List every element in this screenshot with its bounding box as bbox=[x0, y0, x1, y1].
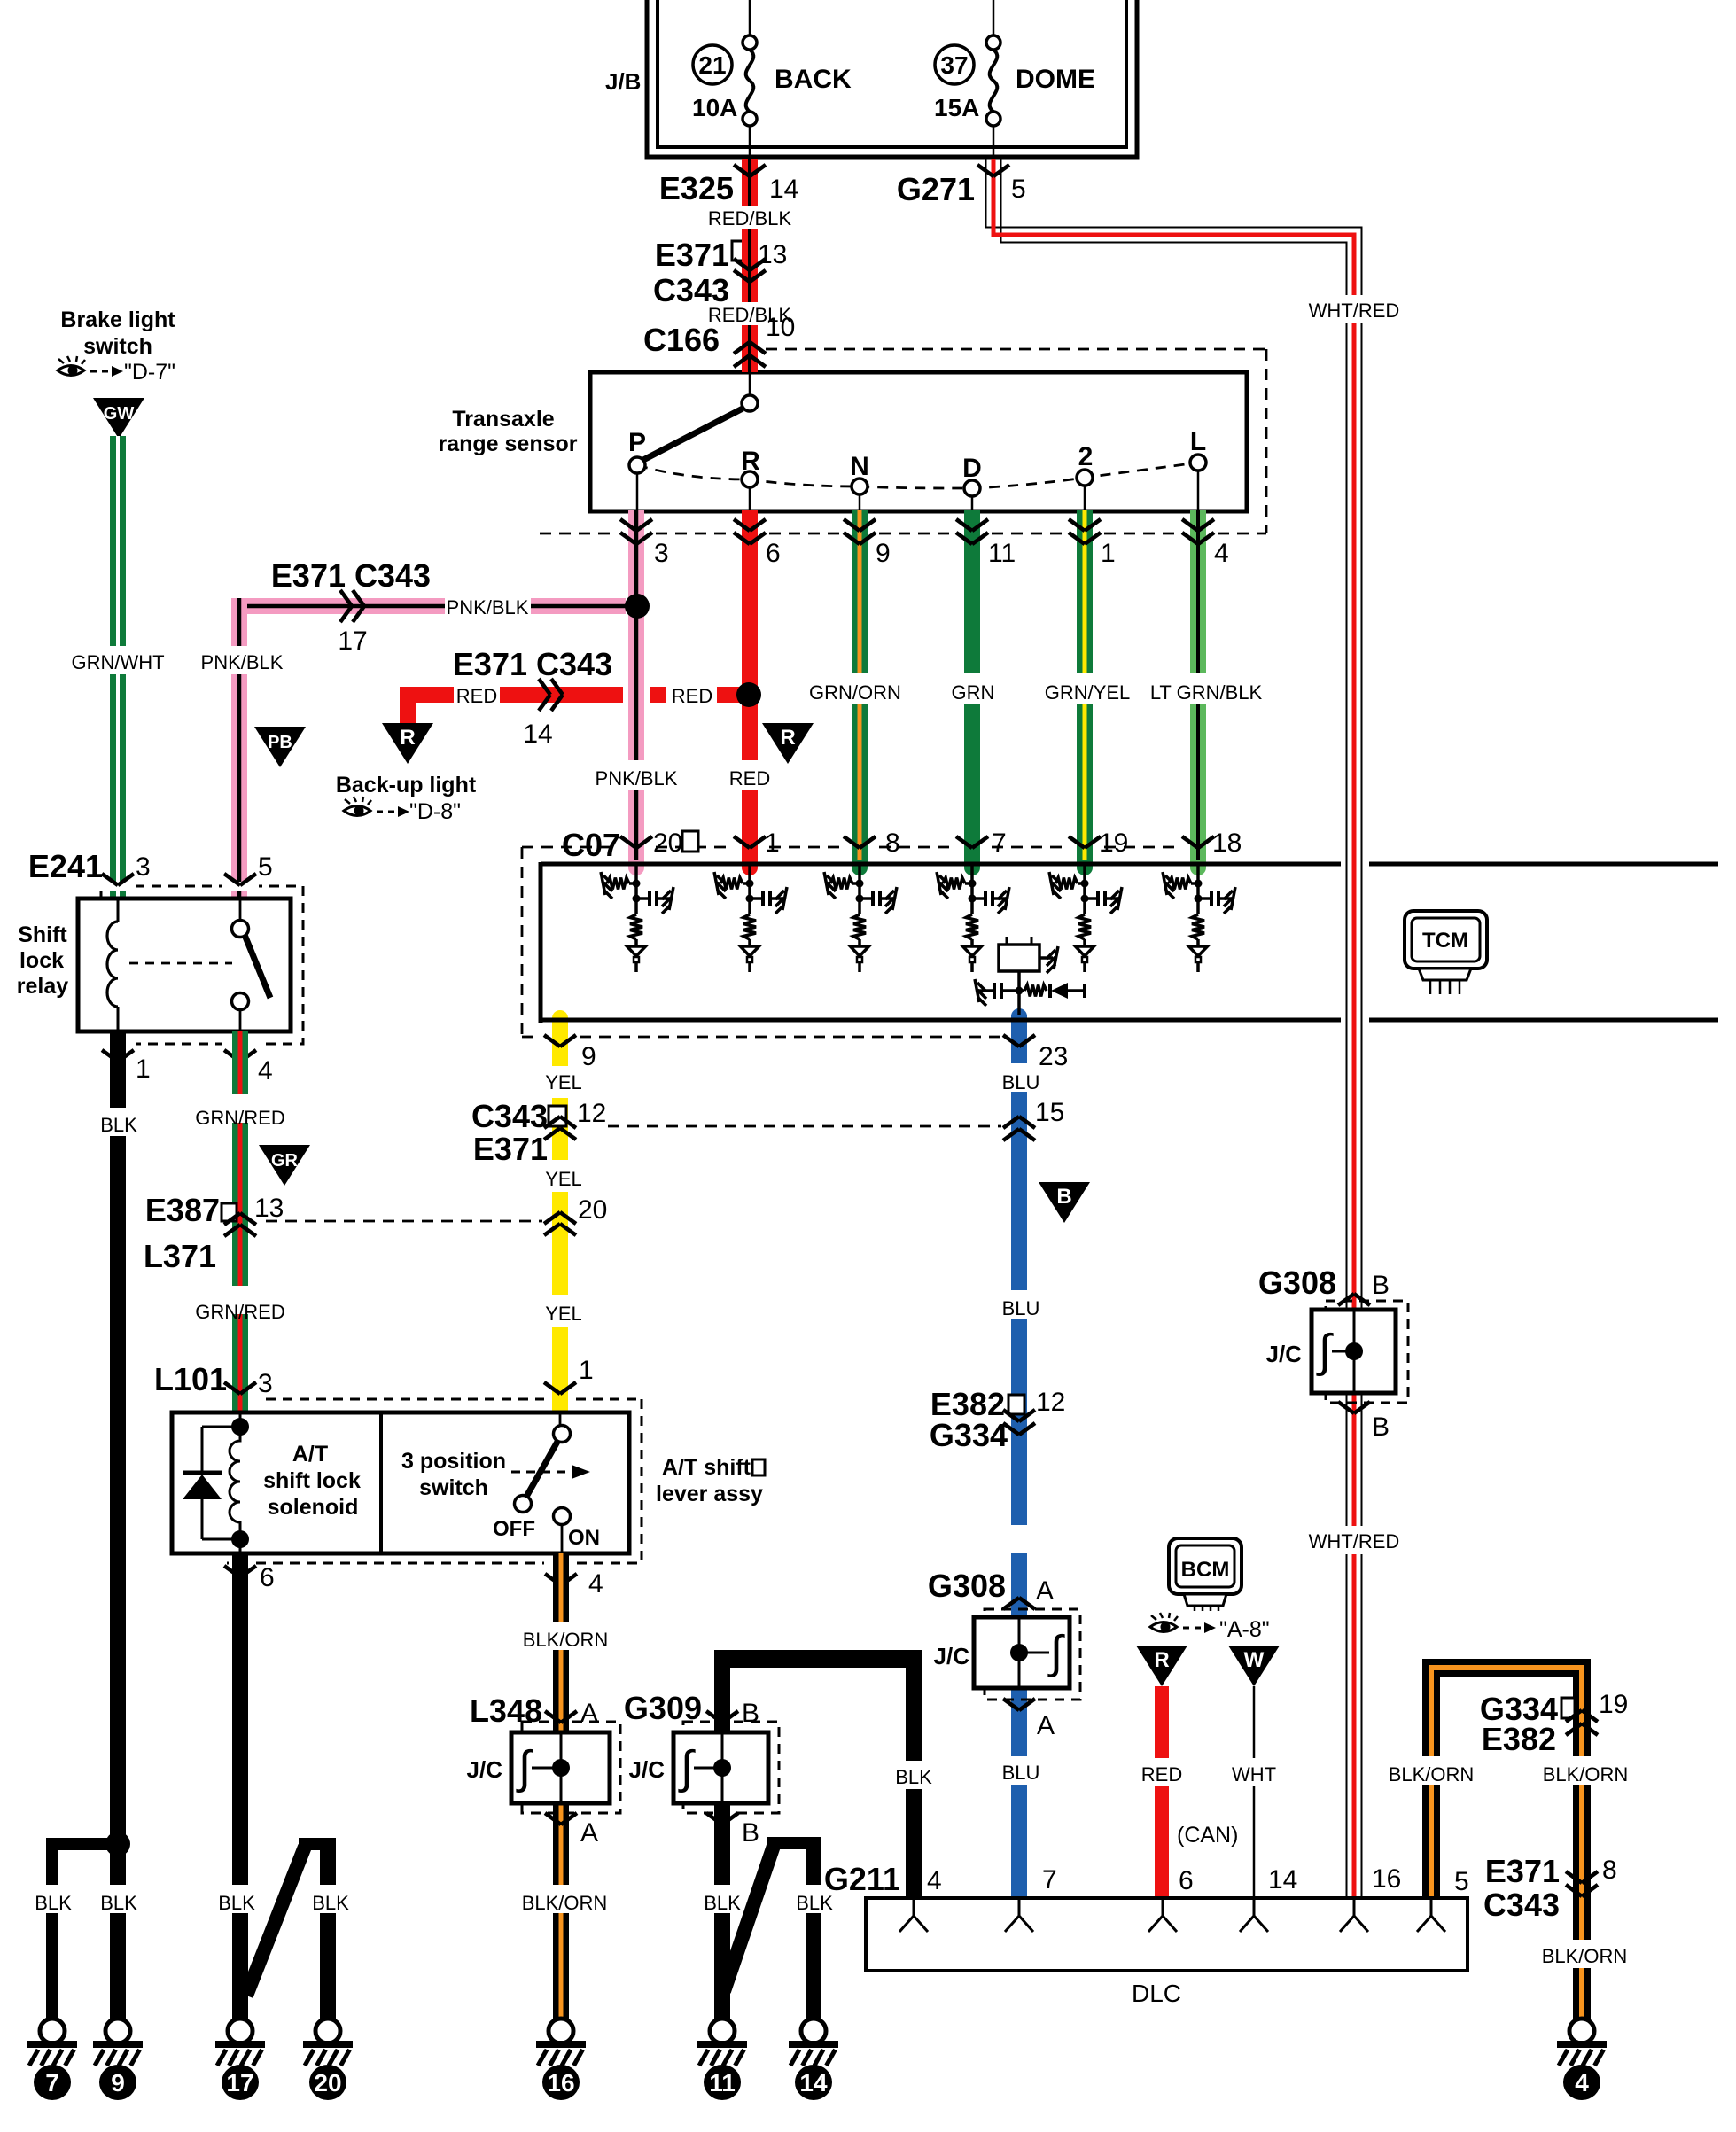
L348 bottom chevron bbox=[545, 1813, 561, 1825]
wire PNK/BLK sensor P bbox=[628, 510, 644, 760]
svg-text:OFF: OFF bbox=[493, 1517, 535, 1541]
svg-text:A: A bbox=[1037, 1711, 1055, 1740]
wire WHT bbox=[1253, 1686, 1256, 1758]
wire WHT/RED from G271 (elbow) bbox=[986, 159, 1362, 295]
BCM icon bbox=[1169, 1538, 1242, 1594]
svg-text:WHT/RED: WHT/RED bbox=[1309, 300, 1400, 322]
svg-text:14: 14 bbox=[799, 2069, 828, 2097]
ground 20 bbox=[315, 2019, 340, 2043]
C07 chevron D bbox=[956, 836, 972, 848]
connector G308A bottom chevron bbox=[1003, 1699, 1019, 1710]
eye ref D-7 bbox=[58, 366, 84, 376]
svg-text:RED: RED bbox=[456, 685, 497, 707]
switch wire in bbox=[559, 1412, 562, 1426]
svg-text:17: 17 bbox=[226, 2069, 253, 2097]
C07 chevron pin23 bbox=[1003, 1035, 1019, 1047]
A/T box divider bbox=[379, 1412, 383, 1553]
svg-text:range sensor: range sensor bbox=[438, 432, 577, 456]
ground 4 bbox=[1569, 2019, 1594, 2043]
svg-text:B: B bbox=[742, 1699, 759, 1728]
svg-text:2: 2 bbox=[1078, 442, 1094, 471]
svg-text:relay: relay bbox=[17, 974, 68, 999]
svg-text:C07: C07 bbox=[562, 827, 620, 863]
svg-text:Shift: Shift bbox=[18, 922, 67, 947]
wire LT GRN/BLK sensor L bbox=[1190, 510, 1206, 673]
triangle R (range sensor R wire) bbox=[762, 723, 814, 764]
TCM input circuit 5 bbox=[1083, 866, 1086, 900]
svg-text:BLK/ORN: BLK/ORN bbox=[1389, 1763, 1475, 1786]
svg-text:4: 4 bbox=[1575, 2069, 1589, 2097]
switch arm bbox=[526, 1442, 557, 1497]
relay contact top bbox=[239, 899, 242, 921]
svg-text:DLC: DLC bbox=[1132, 1980, 1181, 2007]
svg-text:"D-7": "D-7" bbox=[124, 360, 175, 385]
wire GRN/ORN sensor N bbox=[852, 510, 868, 673]
svg-text:GRN/RED: GRN/RED bbox=[195, 1107, 284, 1129]
connector G308A top chevron bbox=[1003, 1598, 1019, 1609]
relay mechanical link bbox=[129, 962, 232, 965]
svg-text:21: 21 bbox=[698, 51, 726, 79]
connector square E382-12 bbox=[1008, 1395, 1024, 1414]
connector E371/C343 chevrons bbox=[734, 259, 750, 270]
A/T lever dashed box bbox=[266, 1398, 544, 1401]
svg-text:BLU: BLU bbox=[1002, 1071, 1040, 1093]
triangle W (CAN) bbox=[1228, 1646, 1280, 1686]
svg-text:W: W bbox=[1244, 1648, 1265, 1672]
svg-text:GRN: GRN bbox=[952, 681, 995, 704]
svg-text:4: 4 bbox=[258, 1056, 273, 1085]
svg-text:TCM: TCM bbox=[1422, 929, 1468, 953]
svg-text:8: 8 bbox=[885, 829, 900, 858]
DLC pin 16 fork bbox=[1353, 1898, 1356, 1916]
svg-text:17: 17 bbox=[338, 626, 367, 656]
fuse number circle 21 bbox=[693, 45, 732, 84]
fuse number circle 37 bbox=[935, 45, 974, 84]
transaxle range sensor box bbox=[590, 372, 1247, 511]
svg-text:Transaxle: Transaxle bbox=[452, 407, 554, 432]
triangle GR bbox=[259, 1145, 310, 1186]
wire RED sensor R bbox=[742, 510, 758, 760]
svg-text:3 position: 3 position bbox=[401, 1449, 506, 1474]
dashed connector line C07 top bbox=[522, 846, 617, 849]
connector 20 chevrons bbox=[544, 1212, 560, 1224]
svg-text:3: 3 bbox=[654, 539, 669, 568]
svg-text:J/C: J/C bbox=[629, 1756, 666, 1783]
svg-text:A/T: A/T bbox=[292, 1442, 328, 1467]
svg-text:GW: GW bbox=[104, 404, 135, 424]
C07 chevron L bbox=[1182, 836, 1198, 848]
dashed connector line C166 bbox=[766, 348, 1266, 351]
sensor contact D bbox=[964, 480, 980, 496]
svg-text:6: 6 bbox=[1179, 1866, 1194, 1895]
svg-text:11: 11 bbox=[988, 539, 1016, 568]
connector chevrons 14 bbox=[539, 679, 550, 695]
svg-text:GR: GR bbox=[271, 1151, 299, 1171]
svg-text:16: 16 bbox=[1372, 1864, 1401, 1894]
svg-text:Back-up light: Back-up light bbox=[336, 773, 477, 798]
svg-text:BLK: BLK bbox=[895, 1766, 932, 1788]
ground 14 bbox=[801, 2019, 826, 2043]
svg-text:BLK: BLK bbox=[35, 1892, 72, 1914]
G308B bottom chevron bbox=[1338, 1402, 1354, 1413]
svg-text:PNK/BLK: PNK/BLK bbox=[201, 651, 284, 673]
svg-text:9: 9 bbox=[581, 1042, 596, 1071]
dashed connector line C07 bottom bbox=[522, 1036, 541, 1039]
fuse 37 DOME 15A bbox=[986, 35, 1000, 50]
G308B top chevron bbox=[1338, 1294, 1354, 1305]
svg-text:14: 14 bbox=[1268, 1865, 1297, 1895]
svg-text:12: 12 bbox=[1036, 1388, 1065, 1417]
ground 11 bbox=[710, 2019, 735, 2043]
connector chevrons pin 3 bbox=[620, 519, 636, 531]
junction dot red bbox=[736, 682, 761, 707]
dashed connector link E387-13 to 20 bbox=[266, 1220, 542, 1223]
connector chevrons pin 6 bbox=[734, 519, 750, 531]
svg-text:YEL: YEL bbox=[545, 1303, 582, 1325]
svg-text:BLK: BLK bbox=[218, 1892, 255, 1914]
L101 chevron bbox=[224, 1382, 240, 1394]
svg-text:BCM: BCM bbox=[1181, 1558, 1230, 1582]
svg-text:P: P bbox=[628, 428, 646, 457]
solenoid coil bbox=[230, 1427, 240, 1539]
svg-text:6: 6 bbox=[766, 539, 781, 568]
svg-text:BLK: BLK bbox=[312, 1892, 349, 1914]
svg-text:L101: L101 bbox=[154, 1361, 227, 1397]
TCM input circuit 4 bbox=[970, 866, 974, 900]
wire GRN/RED bbox=[232, 1031, 248, 1094]
svg-text:R: R bbox=[1154, 1648, 1169, 1672]
connector G271 chevron bbox=[977, 165, 993, 176]
connector chevrons 17 bbox=[340, 590, 352, 606]
svg-text:∫: ∫ bbox=[678, 1742, 696, 1794]
relay switch arm bbox=[245, 935, 270, 998]
wire GRN sensor D bbox=[964, 510, 980, 673]
triangle PB bbox=[254, 727, 306, 767]
svg-text:∫: ∫ bbox=[1047, 1627, 1065, 1678]
svg-text:BLK/ORN: BLK/ORN bbox=[1543, 1763, 1629, 1786]
svg-text:RED/BLK: RED/BLK bbox=[708, 207, 791, 230]
sensor dashed selector arc bbox=[637, 463, 1198, 488]
svg-text:9: 9 bbox=[876, 539, 891, 568]
junction connector G308 A bbox=[985, 1609, 1080, 1700]
svg-text:switch: switch bbox=[83, 334, 152, 359]
connector E241 chevron pin3 bbox=[102, 874, 118, 885]
svg-text:B: B bbox=[1372, 1271, 1390, 1300]
ground 20 diagonal bbox=[246, 1847, 305, 1996]
wire RED CAN bbox=[1155, 1686, 1169, 1758]
A/T chevron pin4 bbox=[545, 1574, 561, 1585]
ground 14 stub bbox=[767, 1837, 821, 1849]
svg-text:3: 3 bbox=[136, 852, 151, 882]
svg-text:R: R bbox=[400, 726, 415, 750]
wire BLK/ORN solenoid pin4 bbox=[553, 1553, 569, 1622]
svg-text:PB: PB bbox=[268, 733, 292, 752]
dashed connector link C343-12 to 15 bbox=[608, 1125, 1001, 1128]
switch contact OFF bbox=[515, 1496, 532, 1513]
wire into fuse 37 bbox=[993, 0, 995, 35]
svg-text:GRN/RED: GRN/RED bbox=[195, 1301, 284, 1323]
solenoid bottom node bbox=[231, 1530, 249, 1548]
svg-text:G308: G308 bbox=[928, 1568, 1006, 1604]
svg-text:11: 11 bbox=[709, 2069, 736, 2097]
wire BLK G309 riser bbox=[714, 1650, 730, 1732]
shift lock relay box bbox=[78, 899, 291, 1031]
svg-text:7: 7 bbox=[992, 829, 1007, 858]
svg-text:LT GRN/BLK: LT GRN/BLK bbox=[1150, 681, 1263, 704]
wire GRN/WHT bbox=[110, 436, 126, 646]
svg-text:BLK: BLK bbox=[100, 1892, 137, 1914]
svg-text:8: 8 bbox=[1602, 1856, 1617, 1885]
junction dot pink bbox=[625, 594, 650, 619]
svg-text:13: 13 bbox=[254, 1194, 284, 1223]
svg-text:RED: RED bbox=[672, 685, 712, 707]
junction connector G308 B bbox=[1326, 1301, 1408, 1403]
junction connector G309 bbox=[683, 1722, 779, 1813]
svg-text:J/C: J/C bbox=[467, 1756, 503, 1783]
ground 17 bbox=[228, 2019, 253, 2043]
DLC pin 7 fork bbox=[1018, 1898, 1021, 1916]
svg-text:E371: E371 bbox=[1485, 1853, 1560, 1889]
svg-text:E371 C343: E371 C343 bbox=[271, 557, 431, 594]
svg-text:DOME: DOME bbox=[1016, 65, 1095, 94]
svg-text:∫: ∫ bbox=[1316, 1326, 1334, 1377]
connector G334/E382 chevrons bbox=[1566, 1710, 1582, 1722]
svg-text:RED: RED bbox=[729, 767, 770, 790]
A/T chevron pin 1 bbox=[544, 1382, 560, 1394]
svg-text:J/B: J/B bbox=[605, 68, 641, 95]
svg-text:A: A bbox=[580, 1818, 598, 1848]
svg-text:20: 20 bbox=[653, 829, 682, 858]
wire BLK relay pin1 bbox=[110, 1031, 126, 1108]
DLC box bbox=[866, 1898, 1467, 1971]
svg-text:BLK: BLK bbox=[100, 1114, 137, 1136]
connector C343/E371 chevrons (yel) bbox=[544, 1117, 560, 1128]
wire RED horizontal E371 C343 bbox=[400, 687, 454, 703]
sensor selector arm bbox=[643, 409, 743, 460]
A/T chevron pin6 bbox=[224, 1566, 240, 1577]
diode branch bbox=[202, 1426, 240, 1428]
connector chevrons pin 11 bbox=[956, 519, 972, 531]
svg-text:YEL: YEL bbox=[545, 1168, 582, 1190]
svg-text:J/C: J/C bbox=[1266, 1341, 1303, 1367]
ground 14 diagonal bbox=[724, 1846, 774, 1991]
svg-text:lever assy: lever assy bbox=[656, 1482, 763, 1506]
svg-text:J/C: J/C bbox=[934, 1643, 970, 1669]
svg-text:1: 1 bbox=[765, 829, 780, 858]
svg-text:BLK/ORN: BLK/ORN bbox=[1542, 1945, 1628, 1967]
svg-text:7: 7 bbox=[1042, 1865, 1057, 1895]
svg-text:RED: RED bbox=[1141, 1763, 1182, 1786]
svg-text:13: 13 bbox=[758, 240, 787, 269]
svg-text:R: R bbox=[741, 447, 760, 476]
svg-text:BLK/ORN: BLK/ORN bbox=[522, 1892, 608, 1914]
svg-text:4: 4 bbox=[588, 1569, 603, 1599]
G309 top chevron bbox=[706, 1711, 722, 1723]
C07 chevron pin9 bbox=[544, 1035, 560, 1047]
connector E241 chevron pin5 bbox=[224, 874, 240, 885]
connector E371/C343 chevrons (loop) bbox=[1566, 1871, 1582, 1883]
triangle GW bbox=[93, 398, 144, 439]
svg-text:E371 C343: E371 C343 bbox=[453, 646, 612, 682]
wire into fuse 21 bbox=[749, 0, 751, 35]
svg-text:GRN/WHT: GRN/WHT bbox=[71, 651, 164, 673]
svg-text:1: 1 bbox=[136, 1054, 151, 1084]
svg-text:L: L bbox=[1190, 427, 1206, 456]
svg-text:R: R bbox=[780, 726, 795, 750]
wire GRN/YEL sensor 2 bbox=[1077, 510, 1093, 673]
svg-text:A/T shift: A/T shift bbox=[662, 1455, 751, 1480]
sensor contact R bbox=[742, 471, 758, 487]
svg-text:19: 19 bbox=[1599, 1690, 1628, 1719]
svg-text:9: 9 bbox=[111, 2069, 125, 2097]
svg-text:E241: E241 bbox=[28, 848, 103, 884]
svg-text:C343: C343 bbox=[653, 272, 729, 308]
svg-text:4: 4 bbox=[927, 1866, 942, 1895]
svg-text:N: N bbox=[850, 452, 869, 481]
wire WHT/RED right vertical bbox=[1346, 323, 1348, 1310]
TCM input circuit 3 bbox=[858, 866, 861, 900]
svg-text:BLU: BLU bbox=[1002, 1297, 1040, 1319]
junction block J/B inner box bbox=[658, 0, 1126, 147]
svg-text:shift lock: shift lock bbox=[263, 1468, 361, 1493]
connector E387/L371 chevrons bbox=[224, 1213, 240, 1225]
fuse 21 BACK 10A bbox=[743, 35, 757, 50]
svg-text:B: B bbox=[742, 1818, 759, 1848]
svg-text:15: 15 bbox=[1035, 1098, 1064, 1127]
svg-text:5: 5 bbox=[1454, 1867, 1469, 1896]
triangle B bbox=[1039, 1182, 1090, 1223]
svg-text:19: 19 bbox=[1099, 829, 1128, 858]
svg-text:B: B bbox=[1372, 1412, 1390, 1442]
svg-text:E371: E371 bbox=[655, 237, 729, 273]
TCM CAN chain bbox=[975, 979, 979, 1002]
svg-text:C343: C343 bbox=[471, 1098, 548, 1134]
svg-text:YEL: YEL bbox=[545, 1071, 582, 1093]
svg-text:∫: ∫ bbox=[516, 1742, 533, 1794]
junction connector L348 bbox=[522, 1722, 620, 1813]
TCM box bbox=[541, 862, 1341, 867]
eye ref A-8 bbox=[1150, 1622, 1177, 1632]
TCM input circuit 6 bbox=[1196, 866, 1200, 900]
DLC pin 14 fork bbox=[1253, 1898, 1256, 1916]
eye ref D-8 bbox=[344, 806, 370, 816]
wire BLK/ORN loop bbox=[1422, 1659, 1591, 1677]
sensor contact P bbox=[629, 457, 645, 473]
C07 chevron R bbox=[734, 836, 750, 848]
svg-text:12: 12 bbox=[577, 1099, 606, 1128]
switch contact top bbox=[554, 1426, 571, 1443]
svg-text:lock: lock bbox=[19, 948, 64, 973]
svg-text:G308: G308 bbox=[1258, 1264, 1336, 1301]
svg-text:A: A bbox=[580, 1699, 598, 1728]
svg-text:E325: E325 bbox=[659, 170, 734, 206]
svg-text:37: 37 bbox=[940, 51, 968, 79]
svg-text:"A-8": "A-8" bbox=[1219, 1617, 1270, 1642]
svg-text:5: 5 bbox=[258, 852, 273, 882]
connector chevrons pin 1 bbox=[1069, 519, 1085, 531]
sensor contact N bbox=[852, 479, 868, 494]
wire YEL bbox=[552, 1017, 568, 1066]
connector chevrons pin 9 bbox=[844, 519, 860, 531]
svg-text:C166: C166 bbox=[643, 322, 720, 358]
TCM input circuit 2 bbox=[748, 866, 751, 900]
connector 15 chevrons bbox=[1003, 1117, 1019, 1128]
relay chevron pin4 bbox=[224, 1050, 240, 1062]
svg-text:7: 7 bbox=[45, 2069, 59, 2097]
svg-text:23: 23 bbox=[1039, 1042, 1068, 1071]
sensor common contact bbox=[749, 372, 751, 395]
triangle R (CAN) bbox=[1136, 1646, 1187, 1686]
C07 chevron P bbox=[620, 836, 636, 848]
svg-text:18: 18 bbox=[1212, 829, 1242, 858]
TCM icon bbox=[1405, 911, 1487, 969]
svg-text:5: 5 bbox=[1011, 175, 1026, 204]
svg-text:E371: E371 bbox=[473, 1131, 548, 1167]
DLC pin 5 fork bbox=[1430, 1898, 1433, 1916]
ground 20 stub bbox=[299, 1838, 336, 1850]
svg-text:4: 4 bbox=[1214, 539, 1229, 568]
svg-text:(CAN): (CAN) bbox=[1177, 1823, 1238, 1848]
svg-text:1: 1 bbox=[579, 1356, 594, 1385]
svg-text:A: A bbox=[1036, 1576, 1054, 1606]
DLC pin 4 fork bbox=[913, 1898, 915, 1916]
TCM CAN unit bbox=[1006, 937, 1008, 945]
ground 16 bbox=[549, 2019, 573, 2043]
connector square G334-19 bbox=[1561, 1698, 1575, 1718]
junction bar to ground 7 bbox=[46, 1838, 124, 1850]
svg-text:switch: switch bbox=[419, 1475, 488, 1500]
wire RED/BLK from fuse 21 bbox=[742, 159, 758, 206]
svg-text:C343: C343 bbox=[1483, 1887, 1560, 1923]
svg-text:GRN/YEL: GRN/YEL bbox=[1045, 681, 1131, 704]
svg-text:L348: L348 bbox=[470, 1692, 542, 1729]
svg-text:WHT/RED: WHT/RED bbox=[1309, 1530, 1400, 1552]
TCM input circuit 1 bbox=[634, 866, 638, 900]
connector square C343-12 bbox=[549, 1106, 566, 1126]
connector E325 chevron bbox=[734, 165, 750, 176]
svg-text:20: 20 bbox=[578, 1195, 607, 1225]
dashed connector line below sensor bbox=[540, 533, 617, 535]
switch dashed arrow bbox=[511, 1471, 572, 1474]
svg-text:BLK: BLK bbox=[704, 1892, 741, 1914]
svg-text:10: 10 bbox=[766, 313, 795, 342]
sensor contact 2 bbox=[1077, 470, 1093, 486]
C07 chevron N bbox=[844, 836, 860, 848]
DLC pin 6 fork bbox=[1162, 1898, 1164, 1916]
svg-text:Brake light: Brake light bbox=[60, 307, 175, 332]
svg-text:3: 3 bbox=[258, 1369, 273, 1398]
ground 7 bbox=[40, 2019, 65, 2043]
wire BLU bbox=[1011, 1015, 1027, 1063]
svg-text:6: 6 bbox=[260, 1563, 275, 1592]
solenoid top node bbox=[231, 1418, 249, 1436]
svg-text:G334: G334 bbox=[930, 1417, 1008, 1453]
svg-text:GRN/ORN: GRN/ORN bbox=[809, 681, 901, 704]
L348 top chevron bbox=[545, 1711, 561, 1723]
wire BLK solenoid pin6 bbox=[232, 1553, 248, 1885]
svg-text:D: D bbox=[962, 454, 982, 483]
svg-text:E382: E382 bbox=[1482, 1721, 1556, 1757]
connector chevrons pin 4 bbox=[1182, 519, 1198, 531]
svg-text:solenoid: solenoid bbox=[268, 1495, 359, 1520]
triangle R to back-up light bbox=[382, 723, 433, 764]
A/T solenoid+switch box bbox=[172, 1412, 629, 1553]
svg-text:PNK/BLK: PNK/BLK bbox=[596, 767, 678, 790]
svg-text:BLK/ORN: BLK/ORN bbox=[523, 1629, 609, 1651]
svg-text:PNK/BLK: PNK/BLK bbox=[447, 596, 529, 619]
svg-text:20: 20 bbox=[314, 2069, 341, 2097]
connector E382/G334 chevrons bbox=[1003, 1410, 1019, 1421]
